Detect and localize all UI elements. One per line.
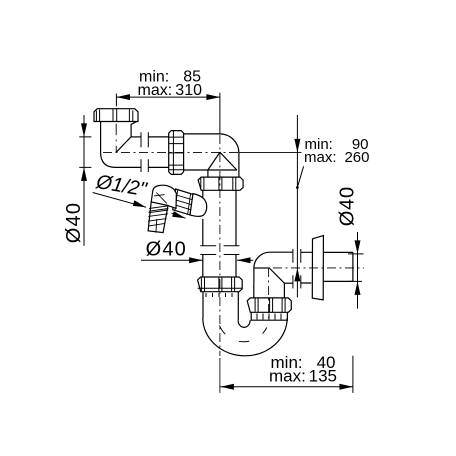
elbow E2 neck left edge bbox=[207, 170, 209, 177]
dimension D2 text bbox=[304, 136, 370, 166]
elbow E1 chamfer bbox=[116, 137, 131, 152]
elbow E3 chamfer bbox=[269, 268, 284, 283]
trap nut N4 (left, on vertical pipe) bbox=[198, 277, 243, 292]
pipe break B3 (outlet pipe) bbox=[293, 249, 301, 289]
dimension D3 left (Ø40) bbox=[79, 115, 91, 246]
inlet elbow E1 bbox=[101, 122, 141, 168]
U-trap outer bend bbox=[203, 318, 287, 356]
dimension D6 bottom (min 40 / max 135) bbox=[220, 356, 353, 393]
svg-text:135: 135 bbox=[309, 367, 337, 386]
hose barb elbow internal lines bbox=[154, 193, 167, 204]
U-trap inner dashed arc bbox=[220, 326, 267, 342]
outlet pipe P3 to flange bbox=[301, 252, 313, 283]
trap left riser bbox=[203, 292, 238, 321]
elbow E1 right body edge bbox=[131, 122, 137, 137]
hose barb union nut bbox=[173, 189, 193, 215]
right riser bbox=[254, 283, 285, 298]
dimension D1 text bbox=[138, 69, 203, 100]
U-trap inner notch bbox=[238, 320, 250, 327]
elbow E1 center dash-dot bbox=[115, 124, 117, 153]
svg-text:Ø40: Ø40 bbox=[146, 238, 187, 260]
leader Ø1/2" arrows bbox=[93, 193, 186, 219]
svg-text:Ø40: Ø40 bbox=[337, 186, 359, 226]
elbow E2 chamfer left diagonal bbox=[208, 152, 220, 170]
dimension D2 right (min 90 / max 260) bbox=[294, 115, 303, 297]
pipe break B2 (vertical pipe) bbox=[200, 246, 239, 255]
outlet elbow E3 bbox=[254, 252, 293, 283]
trap nut N5 (right) bbox=[247, 298, 291, 312]
dimension D4 middle (Ø40) bbox=[141, 257, 253, 263]
nut N3 (below elbow E2) bbox=[198, 177, 243, 190]
trap collar below N5 bbox=[251, 312, 287, 320]
centerline outlet pipe horizontal bbox=[255, 267, 364, 269]
elbow E2 chamfer right diagonal bbox=[220, 152, 237, 170]
wall flange bbox=[312, 236, 323, 300]
centerline extension solid to dim D2 bbox=[239, 151, 302, 153]
dimension D6 text bbox=[269, 353, 337, 386]
hose barb tail ridges bbox=[148, 206, 168, 233]
dimension D1 top (min 85 / max 310) bbox=[116, 93, 219, 134]
svg-text:max:: max: bbox=[269, 367, 306, 386]
union nut N2 bbox=[169, 131, 184, 175]
centerline right riser bbox=[268, 268, 270, 320]
hose barb nut ribs bbox=[173, 190, 192, 215]
elbow E3 shoulder bbox=[254, 267, 269, 269]
inlet nut N1 (knurled, top-left) bbox=[94, 109, 138, 122]
vertical pipe P2 bbox=[202, 190, 204, 277]
svg-text:max:: max: bbox=[138, 82, 173, 99]
hose barb elbow bbox=[151, 185, 176, 208]
centerline inlet pipe horizontal bbox=[103, 151, 240, 153]
pipe break B1 (horizontal inlet pipe) bbox=[141, 132, 148, 172]
outlet pipe end bbox=[323, 252, 353, 281]
hose barb tail bbox=[148, 202, 168, 233]
svg-text:310: 310 bbox=[175, 82, 202, 99]
inlet pipe P1 right segment bbox=[148, 137, 168, 168]
svg-text:max:: max: bbox=[304, 149, 337, 166]
trap thread ticks below N4 bbox=[206, 293, 232, 297]
hose barb cone to pipe bbox=[190, 194, 207, 217]
svg-text:260: 260 bbox=[344, 149, 369, 166]
centerlines bbox=[103, 135, 364, 393]
svg-text:Ø40: Ø40 bbox=[63, 202, 85, 243]
centerline trap to bottom dim solid bbox=[219, 358, 221, 393]
centerline vertical pipe dash-dot bbox=[219, 135, 221, 356]
elbow E2 (horizontal to down) bbox=[184, 134, 239, 177]
dimension D5 right Ø40 bbox=[348, 232, 364, 309]
